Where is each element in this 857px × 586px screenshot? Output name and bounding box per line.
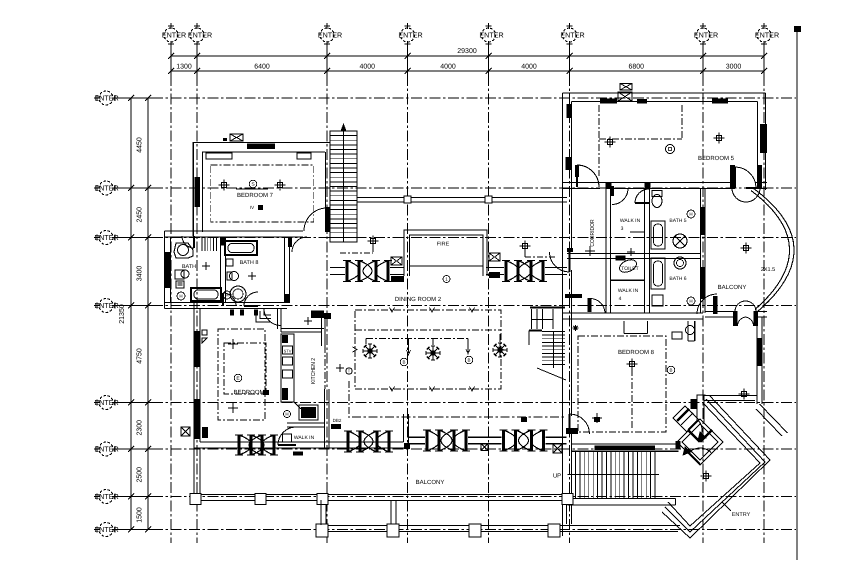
svg-text:ENTER: ENTER (560, 30, 584, 39)
svg-text:1300: 1300 (176, 63, 192, 70)
svg-text:ENTER: ENTER (398, 30, 422, 39)
svg-text:BEDROOM 8: BEDROOM 8 (618, 350, 655, 356)
svg-text:6800: 6800 (628, 63, 644, 70)
svg-text:BATH 6: BATH 6 (669, 276, 686, 282)
svg-text:B: B (402, 360, 405, 365)
svg-text:2300: 2300 (137, 420, 144, 436)
svg-text:DINING ROOM 2: DINING ROOM 2 (395, 297, 442, 303)
svg-text:B: B (669, 368, 672, 373)
svg-text:ENTER: ENTER (318, 30, 342, 39)
svg-text:WALK IN: WALK IN (620, 218, 641, 224)
svg-text:4000: 4000 (440, 63, 456, 70)
svg-text:4000: 4000 (359, 63, 375, 70)
svg-text:ENTER: ENTER (94, 492, 118, 501)
svg-text:KITCHEN 2: KITCHEN 2 (311, 358, 317, 384)
svg-text:DB2: DB2 (333, 418, 342, 423)
svg-text:ENTER: ENTER (94, 183, 118, 192)
svg-text:2X1.5: 2X1.5 (761, 267, 775, 273)
svg-text:BEDROOM 7: BEDROOM 7 (237, 193, 274, 199)
svg-text:BATH 8: BATH 8 (240, 260, 259, 266)
svg-text:ENTER: ENTER (755, 30, 779, 39)
svg-text:ENTER: ENTER (94, 301, 118, 310)
svg-text:BALCONY: BALCONY (416, 480, 445, 486)
svg-text:BALCONY: BALCONY (718, 285, 747, 291)
svg-text:2500: 2500 (137, 467, 144, 483)
svg-text:IV: IV (250, 205, 254, 210)
svg-text:WALK IN: WALK IN (618, 288, 639, 294)
svg-text:ENTER: ENTER (94, 525, 118, 534)
svg-text:BEDROOM 5: BEDROOM 5 (698, 156, 735, 162)
svg-text:ENTER: ENTER (94, 233, 118, 242)
svg-text:CORRIDOR: CORRIDOR (590, 219, 596, 247)
svg-text:H: H (689, 299, 692, 304)
svg-text:STV: STV (284, 348, 292, 353)
svg-text:21350: 21350 (119, 304, 126, 324)
svg-text:1500: 1500 (137, 507, 144, 523)
svg-text:ENTRY: ENTRY (732, 512, 751, 518)
svg-text:4450: 4450 (137, 137, 144, 153)
svg-text:3: 3 (621, 226, 624, 232)
svg-text:H: H (179, 294, 182, 299)
svg-text:BATH 5: BATH 5 (669, 218, 686, 224)
svg-text:29300: 29300 (457, 48, 477, 55)
svg-text:ENTER: ENTER (188, 30, 212, 39)
svg-text:ENTER: ENTER (694, 30, 718, 39)
svg-text:B: B (467, 358, 470, 363)
svg-text:2450: 2450 (137, 207, 144, 223)
svg-text:4000: 4000 (521, 63, 537, 70)
svg-text:BATH: BATH (182, 264, 196, 270)
svg-text:4750: 4750 (137, 348, 144, 364)
svg-text:H: H (689, 212, 692, 217)
svg-text:FIRE: FIRE (437, 241, 450, 247)
svg-text:UP: UP (553, 473, 561, 479)
svg-text:ENTER: ENTER (479, 30, 503, 39)
svg-text:ENTER: ENTER (94, 398, 118, 407)
svg-text:3000: 3000 (726, 63, 742, 70)
svg-text:6400: 6400 (254, 63, 270, 70)
svg-text:ENTER: ENTER (162, 30, 186, 39)
svg-text:H: H (285, 412, 288, 417)
svg-text:WALK IN: WALK IN (294, 435, 315, 441)
svg-text:BEDROOM: BEDROOM (233, 390, 264, 396)
svg-text:ENTER: ENTER (94, 444, 118, 453)
svg-text:3400: 3400 (137, 266, 144, 282)
svg-text:4: 4 (619, 296, 622, 302)
svg-text:ENTER: ENTER (94, 93, 118, 102)
